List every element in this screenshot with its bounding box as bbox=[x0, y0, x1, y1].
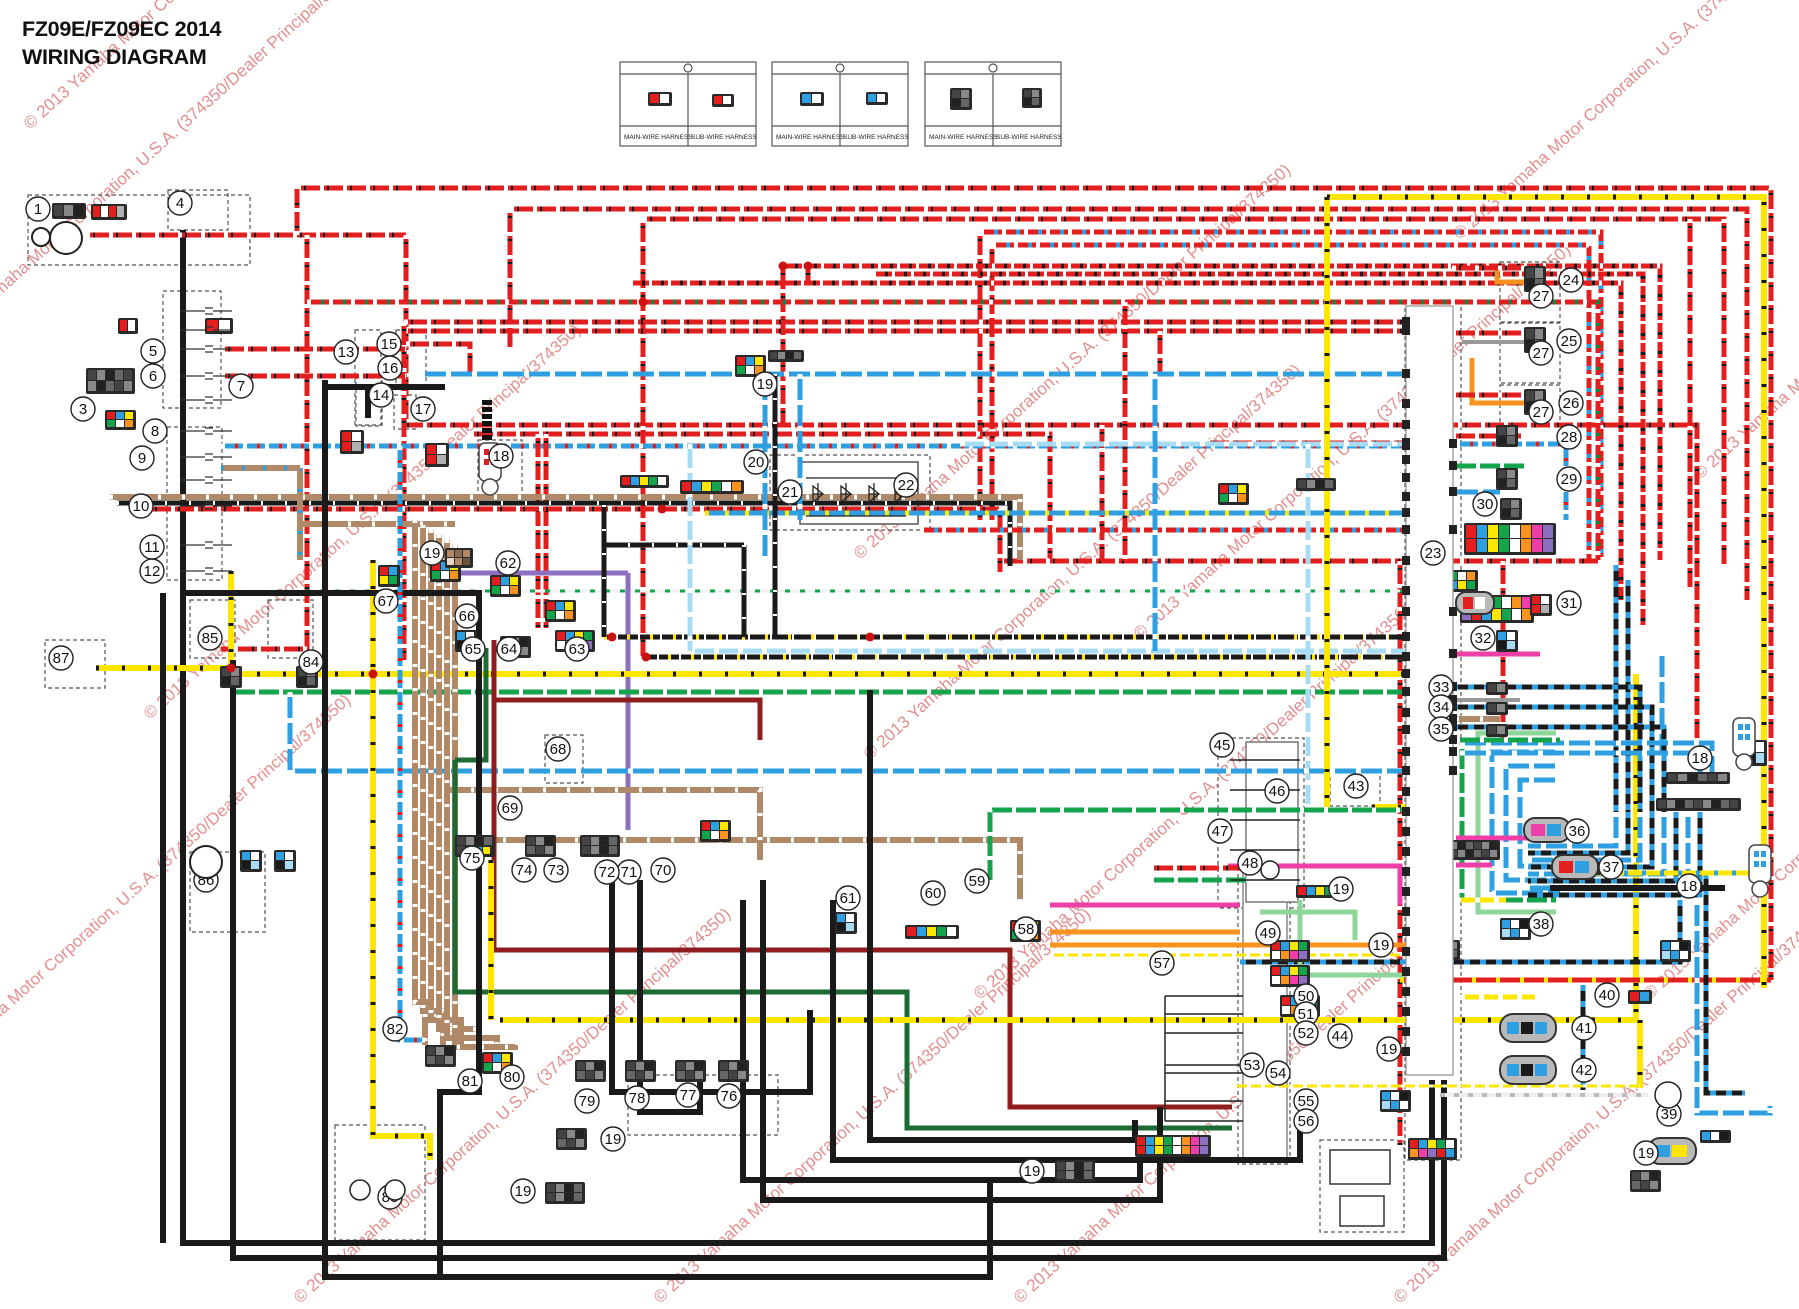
connector block at 91,204 bbox=[91, 204, 127, 220]
connector block at 1496,425 bbox=[1496, 425, 1518, 447]
callout 72 bbox=[595, 860, 619, 884]
connector block at 1440,840 bbox=[1440, 840, 1500, 860]
wire skyblue long bus bbox=[690, 649, 1430, 654]
svg-text:62: 62 bbox=[500, 555, 517, 572]
wire orange h932 bbox=[1050, 930, 1240, 935]
wire weave drop 2 bbox=[1528, 812, 1640, 860]
svg-text:MAIN-WIRE HARNESS: MAIN-WIRE HARNESS bbox=[624, 134, 693, 141]
wire red fuse6 out bbox=[221, 374, 406, 379]
connector block at 1540,826 bbox=[1540, 826, 1571, 839]
wire red v x992 bbox=[990, 245, 995, 520]
wire magenta h866 bbox=[1228, 866, 1400, 905]
connector block at 1630,1170 bbox=[1630, 1170, 1661, 1192]
svg-text:82: 82 bbox=[387, 1021, 404, 1038]
wire yellow thin h1088 bbox=[1233, 1085, 1640, 1088]
svg-text:44: 44 bbox=[1332, 1028, 1349, 1045]
callout 68 bbox=[546, 737, 570, 761]
callout 53 bbox=[1240, 1053, 1264, 1077]
wire maroon long bbox=[494, 640, 1232, 1107]
svg-text:40: 40 bbox=[1599, 987, 1616, 1004]
callout 55 bbox=[1294, 1089, 1318, 1113]
svg-text:4: 4 bbox=[176, 195, 184, 212]
callout 62 bbox=[496, 551, 520, 575]
component outline box at 478,440 bbox=[478, 440, 522, 502]
svg-text:87: 87 bbox=[53, 650, 70, 667]
callout 69 bbox=[498, 796, 522, 820]
wire sw wire 760 bbox=[1230, 759, 1300, 761]
callout 87 bbox=[49, 646, 73, 670]
connector block at 1530,594 bbox=[1530, 594, 1552, 616]
wire blue 743 bbox=[1460, 743, 1712, 775]
svg-text:42: 42 bbox=[1576, 1062, 1593, 1079]
wire red-yellow right bus bbox=[1400, 978, 1771, 983]
wire blue-black v right bbox=[1581, 985, 1586, 1090]
connector block at 1270,940 bbox=[1270, 940, 1310, 962]
wire battery positive bbox=[86, 233, 406, 238]
component outline box at 335,1125 bbox=[335, 1125, 425, 1240]
connector block at 1524,327 bbox=[1524, 327, 1546, 353]
wire brown fuse out bbox=[221, 465, 300, 471]
component outline box at 1405,300 bbox=[1405, 300, 1461, 1160]
callout 1 bbox=[26, 197, 50, 221]
wire red top bus1 bbox=[297, 188, 1771, 980]
wire white to 39 bbox=[1440, 1093, 1648, 1097]
connector block at 430,560 bbox=[430, 560, 461, 582]
wire green row 880 bbox=[1150, 878, 1248, 883]
wire blue v x290 bbox=[288, 692, 293, 771]
connector block at 205,318 bbox=[205, 318, 233, 334]
wire blue-yellow h513 bbox=[705, 511, 1403, 516]
svg-text:70: 70 bbox=[655, 862, 672, 879]
svg-text:78: 78 bbox=[629, 1090, 646, 1107]
wire red fuse5 out bbox=[221, 347, 406, 352]
wire yellow v x373 bbox=[373, 560, 430, 1160]
callout 64 bbox=[497, 637, 521, 661]
component outline box at 190,600 bbox=[190, 600, 235, 658]
wire meter wire 1121 bbox=[1165, 1120, 1243, 1122]
callout 3 bbox=[71, 397, 95, 421]
wire meter wire 1014 bbox=[1165, 1013, 1243, 1015]
connector block at 52,203 bbox=[52, 203, 86, 219]
svg-text:28: 28 bbox=[1561, 429, 1578, 446]
wire red-green bus bbox=[307, 302, 1598, 560]
connector block at 768,350 bbox=[768, 350, 804, 362]
wire red 26 stub bbox=[1452, 393, 1524, 398]
connector block at 425,1045 bbox=[425, 1045, 456, 1067]
component outline box at 268,600 bbox=[268, 600, 313, 658]
svg-text:64: 64 bbox=[501, 641, 518, 658]
wire yellow h1020 bbox=[500, 674, 1636, 1020]
connector block at 1022,88 bbox=[1022, 88, 1042, 108]
wire black 70s v1 bbox=[612, 880, 810, 1092]
callout 58 bbox=[1014, 917, 1038, 941]
callout 75 bbox=[460, 846, 484, 870]
callout 86 bbox=[194, 868, 218, 892]
svg-text:15: 15 bbox=[381, 336, 398, 353]
svg-text:27: 27 bbox=[1533, 288, 1550, 305]
wire black bl v3 bbox=[325, 380, 990, 1277]
connector block at 425,443 bbox=[425, 443, 449, 467]
connector block at 1486,724 bbox=[1486, 724, 1508, 737]
wire red h443 ecu bbox=[1206, 441, 1403, 446]
connector block at 580,835 bbox=[580, 835, 620, 857]
callout 18 bbox=[1688, 746, 1712, 770]
wire yellow v x491 bbox=[488, 860, 494, 1020]
callout 19 bbox=[1329, 877, 1353, 901]
rear brake switch circle 39 bbox=[1655, 1082, 1681, 1108]
callout 35 bbox=[1429, 717, 1453, 741]
wire black-yellow bus1 bbox=[604, 635, 1403, 640]
callout 40 bbox=[1595, 983, 1619, 1007]
component outline box at 1500,385 bbox=[1500, 385, 1560, 445]
callout 17 bbox=[411, 397, 435, 421]
callout 26 bbox=[1559, 391, 1583, 415]
wire kb v x1616 bbox=[1614, 565, 1619, 812]
svg-text:19: 19 bbox=[1381, 1041, 1398, 1058]
connector block at 1408,1138 bbox=[1408, 1138, 1457, 1160]
wire red v x538 bbox=[536, 434, 541, 628]
component outline box at 1500,262 bbox=[1500, 262, 1560, 322]
wire weave drop 0 bbox=[1528, 812, 1616, 846]
callout 46 bbox=[1265, 779, 1289, 803]
svg-text:47: 47 bbox=[1212, 823, 1229, 840]
component outline box at 168,190 bbox=[168, 190, 228, 230]
connector block at 1745,740 bbox=[1745, 740, 1767, 766]
svg-text:16: 16 bbox=[382, 360, 399, 377]
wire red long h509 bbox=[125, 509, 1000, 572]
callout 85 bbox=[198, 626, 222, 650]
svg-text:49: 49 bbox=[1260, 925, 1277, 942]
connector block at 1516,1022 bbox=[1516, 1022, 1556, 1036]
connector block at 500,636 bbox=[500, 636, 531, 658]
wire lightgreen 2 bbox=[1260, 912, 1355, 940]
callout 54 bbox=[1266, 1061, 1290, 1085]
wire meter wire 1101 bbox=[1165, 1100, 1243, 1102]
component outline box at 1330,770 bbox=[1330, 770, 1380, 806]
wire red bus y331 bbox=[404, 329, 1410, 334]
svg-text:19: 19 bbox=[515, 1183, 532, 1200]
svg-text:38: 38 bbox=[1533, 916, 1550, 933]
connector block at 220,666 bbox=[220, 666, 242, 688]
oval connector 39 bbox=[1648, 1138, 1696, 1164]
connector block at 1055,1160 bbox=[1055, 1160, 1095, 1182]
wire meter wire 1033 bbox=[1165, 1032, 1243, 1034]
wire red row 868 bbox=[1150, 866, 1248, 871]
wire red v x1160 bbox=[1158, 331, 1163, 374]
callout 38 bbox=[1529, 912, 1553, 936]
svg-text:30: 30 bbox=[1477, 496, 1494, 513]
svg-text:19: 19 bbox=[605, 1131, 622, 1148]
svg-text:25: 25 bbox=[1561, 333, 1578, 350]
component outline box at 355,330 bbox=[355, 330, 381, 425]
connector block at 1656,798 bbox=[1656, 798, 1741, 811]
wire black mid v1 bbox=[743, 900, 1140, 1180]
wire kb step 35 bbox=[1452, 727, 1664, 812]
svg-text:19: 19 bbox=[757, 376, 774, 393]
oval connector 37 bbox=[1552, 855, 1598, 879]
callout 27 bbox=[1529, 284, 1553, 308]
wire red v x404 bbox=[402, 322, 407, 660]
wire maroon h700 bbox=[494, 700, 760, 740]
wire red h561 bbox=[1000, 559, 1598, 564]
wire black h888 bbox=[1550, 885, 1725, 891]
connector block at 712,94 bbox=[712, 94, 734, 107]
wire orange 24 bbox=[1472, 358, 1524, 403]
connector block at 950,88 bbox=[950, 88, 972, 110]
svg-text:6: 6 bbox=[149, 368, 157, 385]
wire red bus y322 bbox=[404, 320, 1410, 325]
svg-text:48: 48 bbox=[1242, 855, 1259, 872]
svg-text:10: 10 bbox=[133, 498, 150, 515]
connector block at 555,630 bbox=[555, 630, 595, 652]
connector block at 482,1052 bbox=[482, 1052, 513, 1074]
svg-text:76: 76 bbox=[721, 1088, 738, 1105]
component body at 1330,1150 bbox=[1330, 1150, 1390, 1184]
connector block at 700,820 bbox=[700, 820, 731, 842]
wire blue-red right y444 bbox=[1456, 444, 1566, 520]
svg-text:67: 67 bbox=[378, 593, 395, 610]
wire brown-blue left v bbox=[297, 468, 303, 560]
svg-text:36: 36 bbox=[1569, 823, 1586, 840]
wire blue h492 bbox=[1452, 490, 1500, 495]
wire brown h790 bbox=[447, 790, 760, 860]
wire red-black bus1 bbox=[783, 266, 1660, 560]
svg-text:7: 7 bbox=[237, 378, 245, 395]
callout 84 bbox=[299, 650, 323, 674]
connector block at 1516,1064 bbox=[1516, 1064, 1556, 1078]
connector block at 1496,468 bbox=[1496, 468, 1518, 490]
svg-text:71: 71 bbox=[621, 864, 638, 881]
wire brown bundle v2 bbox=[431, 530, 461, 1045]
callout 10 bbox=[129, 494, 153, 518]
svg-text:74: 74 bbox=[516, 862, 533, 879]
wire red 25 stub bbox=[1452, 331, 1524, 336]
svg-text:11: 11 bbox=[144, 539, 160, 556]
wire red drop to fuse row bbox=[221, 235, 307, 649]
wire red 15 16 stubs bbox=[406, 344, 470, 376]
svg-text:72: 72 bbox=[599, 864, 616, 881]
component body at 1243,872 bbox=[1243, 872, 1287, 1160]
wire blue v x765 bbox=[763, 374, 768, 560]
callout 22 bbox=[894, 473, 918, 497]
callout 44 bbox=[1328, 1024, 1352, 1048]
wire blue bus y771 bbox=[290, 769, 1410, 774]
wire green loop right bbox=[1462, 743, 1556, 900]
wire lightgreen 1 bbox=[1300, 900, 1410, 975]
component body at 1246,742 bbox=[1246, 742, 1298, 902]
callout 31 bbox=[1557, 591, 1581, 615]
callout 15 bbox=[377, 332, 401, 356]
oval connector 41 bbox=[1500, 1014, 1556, 1042]
connector block at 1420,570 bbox=[1420, 570, 1478, 592]
svg-text:1: 1 bbox=[34, 201, 42, 218]
wire red drop x510 bbox=[508, 209, 513, 349]
svg-text:43: 43 bbox=[1348, 778, 1365, 795]
svg-text:41: 41 bbox=[1576, 1020, 1593, 1037]
connector block at 625,1060 bbox=[625, 1060, 656, 1082]
wire blue right v bbox=[1660, 651, 1665, 760]
wire yellow 43 out bbox=[1372, 804, 1410, 810]
wire purple h bbox=[445, 571, 628, 576]
wire red-black bus3 bbox=[630, 283, 1621, 600]
svg-text:22: 22 bbox=[898, 477, 915, 494]
svg-text:60: 60 bbox=[925, 885, 942, 902]
wire orange h945 bbox=[1050, 943, 1440, 948]
wire black long h503 bbox=[117, 503, 1010, 566]
callout 80 bbox=[500, 1065, 524, 1089]
callout 60 bbox=[921, 881, 945, 905]
svg-text:34: 34 bbox=[1433, 699, 1450, 716]
connector block at 735,355 bbox=[735, 355, 766, 377]
wire black L 479 bbox=[183, 593, 479, 1277]
rectifier 20-22 diodes bbox=[806, 478, 906, 516]
wire yellow fuse12 drop bbox=[228, 571, 234, 674]
callout 52 bbox=[1294, 1021, 1318, 1045]
wire sw wire 850 bbox=[1230, 849, 1300, 851]
wire blue loop1 bbox=[1492, 752, 1560, 893]
wire brown long h497 bbox=[110, 497, 1020, 560]
connector block at 1270,965 bbox=[1270, 965, 1310, 987]
component outline box at 45,640 bbox=[45, 640, 105, 688]
wire magenta h838 bbox=[1456, 836, 1545, 841]
wire brown bundle v1 bbox=[423, 525, 443, 1045]
svg-text:85: 85 bbox=[202, 630, 219, 647]
component outline box at 545,735 bbox=[545, 735, 583, 783]
wire black 70s v2 bbox=[640, 880, 700, 1112]
svg-text:58: 58 bbox=[1018, 921, 1035, 938]
connector block at 718,1060 bbox=[718, 1060, 749, 1082]
svg-text:9: 9 bbox=[138, 450, 146, 467]
component outline box at 770,455 bbox=[770, 455, 930, 530]
wire magenta h654 bbox=[1452, 652, 1540, 657]
callout 25 bbox=[1557, 329, 1581, 353]
wire yellow v x1327 bbox=[1324, 197, 1330, 807]
callout 19 bbox=[601, 1127, 625, 1151]
callout 20 bbox=[744, 450, 768, 474]
svg-text:69: 69 bbox=[502, 800, 519, 817]
wire magenta h905 bbox=[1050, 903, 1240, 908]
component outline box at 28,195 bbox=[28, 195, 250, 265]
callout 73 bbox=[544, 858, 568, 882]
connector block at 86,368 bbox=[86, 368, 135, 394]
svg-text:19: 19 bbox=[1024, 1163, 1041, 1180]
svg-text:18: 18 bbox=[493, 448, 510, 465]
connector block at 1660,940 bbox=[1660, 940, 1691, 962]
wire black mid v4 bbox=[870, 690, 1135, 1140]
callout 71 bbox=[617, 860, 641, 884]
connector block at 1135,1135 bbox=[1135, 1135, 1211, 1157]
svg-text:61: 61 bbox=[840, 890, 857, 907]
wire yellow-blue h873 bbox=[1552, 871, 1760, 876]
connector block at 490,575 bbox=[490, 575, 521, 597]
svg-text:MAIN-WIRE HARNESS: MAIN-WIRE HARNESS bbox=[929, 134, 998, 141]
callout 21 bbox=[778, 480, 802, 504]
svg-text:8: 8 bbox=[151, 423, 159, 440]
component outline box at 1218,738 bbox=[1218, 738, 1304, 908]
connector block at 445,548 bbox=[445, 548, 473, 568]
component outline box at 163,291 bbox=[163, 291, 221, 408]
svg-text:14: 14 bbox=[373, 387, 390, 404]
wire blue v x1155 bbox=[1153, 374, 1158, 651]
connector block at 240,850 bbox=[240, 850, 262, 872]
oval connector 36 bbox=[1524, 818, 1570, 842]
connector block at 274,850 bbox=[274, 850, 296, 872]
wire weave drop 6 bbox=[1528, 812, 1688, 888]
wire black-yellow bus2 bbox=[645, 655, 1403, 660]
svg-text:46: 46 bbox=[1269, 783, 1286, 800]
connector block at 1628,990 bbox=[1628, 990, 1652, 1004]
oval connector 42 bbox=[1500, 1056, 1556, 1084]
wire blue thick right v bbox=[1697, 900, 1770, 1113]
svg-text:SUB-WIRE HARNESS: SUB-WIRE HARNESS bbox=[843, 134, 909, 141]
callout 32 bbox=[1471, 626, 1495, 650]
callout 18 bbox=[489, 444, 513, 468]
svg-text:3: 3 bbox=[79, 401, 87, 418]
wire green h740 bbox=[1456, 738, 1560, 743]
wire purple v bbox=[626, 573, 631, 830]
wire orange 26 top bbox=[1497, 268, 1524, 282]
component body at 1340,1196 bbox=[1340, 1196, 1384, 1226]
svg-text:19: 19 bbox=[1373, 937, 1390, 954]
callout 9 bbox=[130, 446, 154, 470]
callout 63 bbox=[565, 637, 589, 661]
svg-text:59: 59 bbox=[969, 873, 986, 890]
wire blue 753 bbox=[1460, 753, 1700, 775]
wire red v x1400 bbox=[1398, 561, 1403, 1145]
component outline box at 396,330 bbox=[396, 330, 426, 386]
horn 83 circle a bbox=[350, 1180, 370, 1200]
callout 83 bbox=[378, 1185, 402, 1209]
wire red 24 stub bbox=[1452, 266, 1524, 271]
wire red h436 r bbox=[1452, 434, 1524, 439]
connector block at 1524,389 bbox=[1524, 389, 1546, 415]
wire blue v x800 bbox=[798, 374, 803, 520]
callout 8 bbox=[143, 419, 167, 443]
component outline box at 1320,1140 bbox=[1320, 1140, 1404, 1232]
wire blue v x400 to 82 bbox=[400, 446, 425, 1040]
svg-text:19: 19 bbox=[1638, 1145, 1655, 1162]
wire yellow h997 bbox=[1460, 995, 1535, 1000]
wire blue main bus bbox=[420, 372, 1403, 377]
connector block at 648,92 bbox=[648, 92, 672, 106]
svg-text:26: 26 bbox=[1563, 395, 1580, 412]
sensor 18 right upper bbox=[1733, 718, 1755, 770]
connector block at 1500,918 bbox=[1500, 918, 1531, 940]
connector block at 378,565 bbox=[378, 565, 400, 587]
wire kb v x1628 bbox=[1626, 580, 1631, 812]
callout 76 bbox=[717, 1084, 741, 1108]
callout 59 bbox=[965, 869, 989, 893]
svg-text:MAIN-WIRE HARNESS: MAIN-WIRE HARNESS bbox=[776, 134, 845, 141]
callout 43 bbox=[1344, 774, 1368, 798]
svg-text:17: 17 bbox=[415, 401, 432, 418]
svg-text:45: 45 bbox=[1214, 737, 1231, 754]
svg-text:75: 75 bbox=[464, 850, 481, 867]
component outline box at 394,395 bbox=[394, 395, 416, 429]
connector block at 1380,1090 bbox=[1380, 1090, 1411, 1112]
wire black v x775 bbox=[773, 374, 778, 637]
connector block at 866,92 bbox=[866, 92, 888, 105]
wire meter wire 1065 bbox=[1165, 1064, 1243, 1066]
callout 47 bbox=[1208, 819, 1232, 843]
callout 19 bbox=[420, 541, 444, 565]
callout 5 bbox=[141, 339, 165, 363]
horn 83 circle b bbox=[385, 1180, 405, 1200]
svg-text:33: 33 bbox=[1433, 679, 1450, 696]
wire black v x604 bbox=[602, 505, 607, 637]
callout 19 bbox=[511, 1179, 535, 1203]
callout 48 bbox=[1238, 851, 1262, 875]
